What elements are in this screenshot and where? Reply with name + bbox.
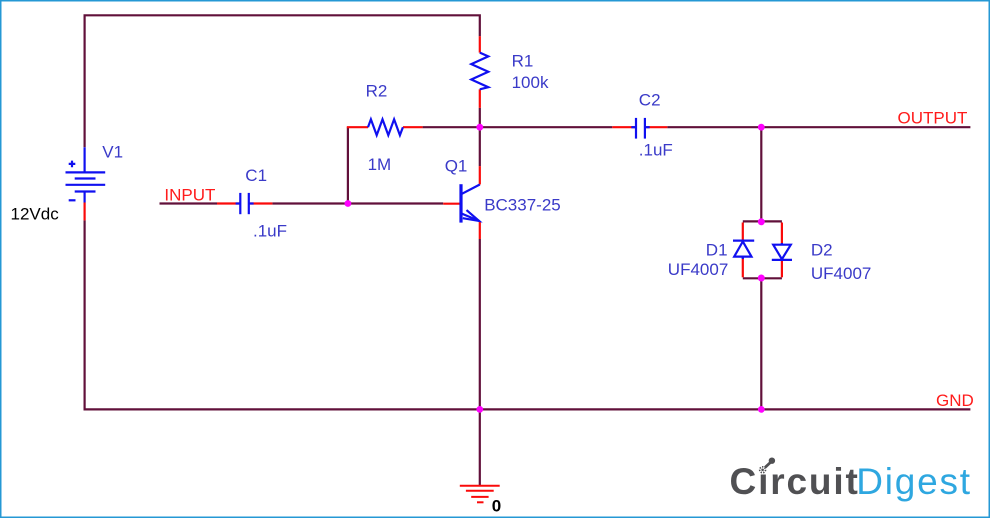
svg-text:R2: R2 <box>366 82 388 101</box>
svg-text:D1: D1 <box>706 241 728 260</box>
svg-text:C2: C2 <box>639 91 661 110</box>
svg-text:12Vdc: 12Vdc <box>11 204 60 223</box>
svg-text:Q1: Q1 <box>445 157 468 176</box>
svg-text:V1: V1 <box>102 143 123 162</box>
svg-text:GND: GND <box>936 391 974 410</box>
svg-text:.1uF: .1uF <box>639 140 673 159</box>
svg-text:0: 0 <box>492 497 501 516</box>
svg-text:INPUT: INPUT <box>164 185 215 204</box>
svg-text:C1: C1 <box>245 166 267 185</box>
svg-text:100k: 100k <box>512 73 549 92</box>
svg-text:D2: D2 <box>811 241 833 260</box>
svg-text:R1: R1 <box>512 52 534 71</box>
svg-text:OUTPUT: OUTPUT <box>898 109 968 128</box>
svg-text:UF4007: UF4007 <box>668 260 728 279</box>
svg-text:.1uF: .1uF <box>253 222 287 241</box>
svg-text:UF4007: UF4007 <box>811 264 871 283</box>
svg-text:BC337-25: BC337-25 <box>484 196 561 215</box>
svg-text:1M: 1M <box>368 155 392 174</box>
svg-text:Cırcuit: Cırcuit <box>730 461 860 502</box>
svg-text:Digest: Digest <box>856 461 972 502</box>
